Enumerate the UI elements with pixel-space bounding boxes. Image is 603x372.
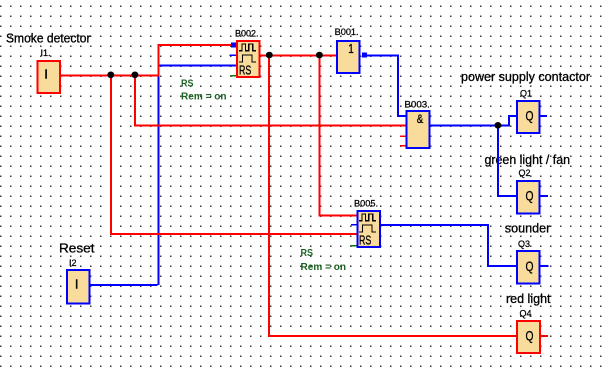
svg-text:sounder: sounder (505, 221, 551, 236)
block B001 OR gate (337, 41, 360, 73)
block Q2 output (517, 181, 540, 213)
stub B002 pin S unconnected (blue) (230, 54, 237, 56)
svg-text:Smoke detector: Smoke detector (6, 31, 91, 46)
svg-text:B002.: B002. (235, 29, 259, 39)
block Q3 output (517, 251, 540, 284)
svg-text:RS: RS (359, 233, 372, 248)
block B002 pulse relay RS (237, 41, 260, 78)
svg-text:Q: Q (526, 188, 534, 204)
wire I1 output (red) (61, 75, 160, 77)
stub Q1 output (blue) (540, 115, 547, 117)
svg-text:I: I (44, 67, 48, 82)
junction C on I1 wire (131, 72, 138, 79)
svg-text:1: 1 (348, 41, 354, 56)
svg-text:Rem = on: Rem = on (301, 262, 347, 273)
wire B003 output to Q1 (blue) (431, 116, 517, 126)
svg-text:Rem = on: Rem = on (181, 92, 227, 103)
svg-text:Q4: Q4 (520, 309, 532, 319)
svg-text:I1.: I1. (41, 48, 51, 58)
stub Q4 output (red) (540, 335, 548, 337)
svg-text:Q: Q (526, 258, 534, 274)
svg-text:Reset: Reset (59, 241, 95, 256)
svg-text:B005.: B005. (354, 199, 378, 209)
block I2 (reset input) (67, 270, 90, 304)
svg-text:B003.: B003. (404, 100, 430, 110)
junction D on B002 output (266, 52, 273, 59)
block B005 pulse relay RS (357, 211, 380, 248)
svg-text:RS: RS (239, 63, 252, 78)
stub B003 pin 3 unconnected (red) (400, 135, 407, 137)
block Q1 output (517, 101, 540, 133)
svg-text:Q1: Q1 (520, 89, 532, 99)
junction E on B003 output (494, 122, 501, 129)
stub Q2 output (blue) (540, 195, 548, 197)
block B003 AND gate (407, 111, 430, 148)
wire junction D down to Q4 (red) (269, 56, 516, 336)
wire B001 output to B003 pin 1 (blue) (367, 56, 407, 116)
stub B005 pin S unconnected (blue) (351, 224, 357, 226)
svg-text:power supply contactor: power supply contactor (461, 69, 591, 84)
svg-text:Q2: Q2 (519, 168, 531, 178)
stub B003 pin 4 unconnected (red) (400, 145, 407, 147)
junction A on I1 wire (107, 72, 114, 79)
wire junction C down to B003 pin 2 (red) (135, 76, 407, 126)
svg-text:B001.: B001. (335, 27, 359, 37)
stub Q3 output (blue) (540, 265, 548, 267)
junction B on B002 output (316, 52, 323, 59)
svg-text:Q: Q (526, 108, 534, 124)
wire junction E down to Q2 (blue) (498, 125, 517, 196)
svg-text:Q3: Q3 (518, 239, 530, 249)
wire B005 output to Q3 (blue) (381, 225, 517, 266)
wire riser I2 to B002 pin R (blue) (158, 65, 237, 285)
stub B005 pin Par (green) (351, 245, 357, 247)
wire junction A down to B005 pin R (red) (111, 76, 357, 235)
pin marker B002 Trg (bold blue square) (231, 42, 237, 47)
block Q4 output (517, 321, 540, 353)
wire I2 output to riser (blue) (91, 284, 158, 286)
svg-text:&: & (417, 112, 424, 126)
pin marker B001 output (bold blue square) (362, 53, 367, 58)
svg-text:Q: Q (526, 328, 534, 344)
stub B002 pin Par (green) (230, 75, 237, 77)
wire junction B down to B005 pin Trg (red) (319, 56, 357, 216)
wire B002 output to B001 input (red) (260, 55, 336, 57)
svg-text:red light: red light (506, 291, 551, 306)
wire riser to B002 pin Trg (red) (159, 45, 231, 77)
svg-text:I: I (75, 277, 79, 292)
svg-text:I2: I2 (69, 258, 77, 268)
block I1 (smoke detector input) (37, 61, 60, 93)
svg-text:RS: RS (181, 79, 194, 90)
svg-text:RS: RS (301, 248, 314, 259)
